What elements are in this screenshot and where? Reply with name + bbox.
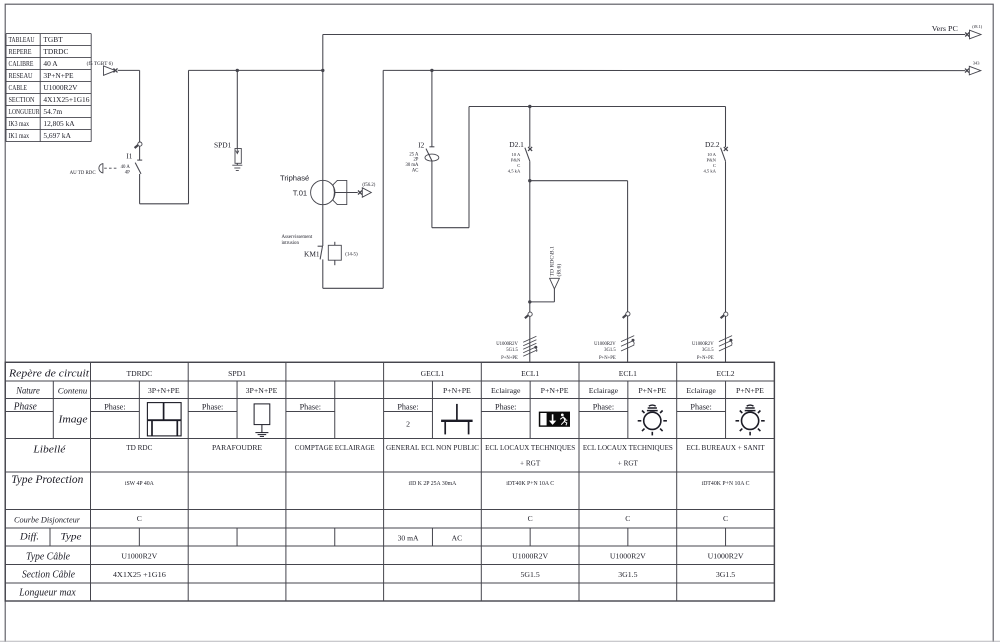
svg-text:IK1 max: IK1 max	[9, 132, 30, 140]
svg-text:P&N: P&N	[511, 157, 521, 162]
svg-text:AU TD RDC: AU TD RDC	[70, 171, 96, 176]
svg-text:iDT40K P+N 10A C: iDT40K P+N 10A C	[702, 481, 750, 487]
svg-text:(f8.6): (f8.6)	[555, 264, 562, 277]
node: meter output reference (f56.2)	[358, 191, 362, 195]
svg-text:3P+N+PE: 3P+N+PE	[43, 71, 74, 80]
svg-text:40 A: 40 A	[121, 165, 131, 170]
svg-text:intrusion: intrusion	[282, 241, 300, 246]
svg-text:P&N: P&N	[707, 157, 717, 162]
svg-text:Eclairage: Eclairage	[491, 386, 521, 395]
svg-text:Vers PC: Vers PC	[932, 24, 958, 33]
svg-text:iID K 2P 25A 30mA: iID K 2P 25A 30mA	[409, 481, 458, 487]
svg-text:Type Câble: Type Câble	[26, 551, 71, 562]
svg-text:P+N+PE: P+N+PE	[443, 386, 471, 395]
svg-text:ECL BUREAUX + SANIT: ECL BUREAUX + SANIT	[687, 444, 766, 452]
svg-text:SPD1: SPD1	[228, 369, 246, 378]
wire: ECL2 to table	[725, 316, 727, 362]
wire: SPD1 drop	[236, 70, 238, 148]
svg-text:U1000R2V: U1000R2V	[496, 342, 518, 347]
svg-text:54.7m: 54.7m	[43, 107, 62, 116]
svg-text:D2.2: D2.2	[705, 140, 720, 149]
svg-text:U1000R2V: U1000R2V	[692, 342, 714, 347]
wire: bus C down to I2	[431, 70, 433, 146]
breaker D2.1 blade	[525, 148, 530, 162]
svg-text:KM1: KM1	[304, 250, 320, 259]
svg-text:12,805 kA: 12,805 kA	[43, 119, 75, 128]
svg-text:TD RDC\B.1: TD RDC\B.1	[549, 246, 555, 276]
remote actuator AU TD RDC	[99, 164, 103, 173]
switch I1 head (circle + flag)	[138, 142, 142, 146]
table: circuit summary grid	[5, 362, 774, 601]
svg-text:I1: I1	[126, 152, 132, 160]
svg-text:P+N+PE: P+N+PE	[541, 386, 569, 395]
cable ECL2 (3G1.5 hatch)	[719, 336, 732, 342]
svg-text:AC: AC	[452, 533, 463, 542]
svg-text:Courbe Disjoncteur: Courbe Disjoncteur	[14, 514, 81, 524]
table image: exit sign luminaire	[539, 412, 570, 427]
svg-text:Nature: Nature	[15, 386, 40, 397]
svg-text:RESEAU: RESEAU	[9, 72, 34, 80]
svg-text:+ RGT: + RGT	[618, 460, 639, 468]
wire: bus segment C	[383, 69, 965, 71]
svg-text:GECL1: GECL1	[421, 369, 445, 378]
svg-text:Libellé: Libellé	[32, 444, 66, 456]
table image: lamp symbol ECL2	[736, 405, 765, 435]
svg-text:Longueur max: Longueur max	[18, 587, 76, 598]
svg-text:Phase:: Phase:	[202, 402, 223, 411]
svg-text:2: 2	[406, 420, 410, 429]
wire: bus end down to D2.2	[725, 107, 727, 148]
svg-text:P+N+PE: P+N+PE	[697, 356, 714, 361]
svg-text:2P: 2P	[413, 158, 418, 163]
svg-text:CALIBRE: CALIBRE	[9, 60, 34, 68]
svg-text:iSW 4P 40A: iSW 4P 40A	[125, 481, 155, 487]
svg-text:AC: AC	[412, 169, 419, 174]
switch I2 blade	[426, 149, 432, 162]
svg-text:+ RGT: + RGT	[520, 460, 541, 468]
wire: KM1 to bottom loop	[322, 259, 324, 288]
svg-text:T.01: T.01	[293, 189, 307, 198]
svg-text:P+N+PE: P+N+PE	[736, 386, 764, 395]
svg-text:Type Protection: Type Protection	[11, 474, 83, 486]
svg-text:iDT40K P+N 10A C: iDT40K P+N 10A C	[506, 481, 554, 487]
wire: top link toward Vers PC	[323, 34, 965, 36]
svg-text:Eclairage: Eclairage	[589, 386, 619, 395]
wire: I2 loop to GECL bus	[431, 161, 433, 227]
svg-text:I2: I2	[418, 142, 424, 150]
svg-text:Phase:: Phase:	[690, 402, 711, 411]
svg-text:5,697 kA: 5,697 kA	[43, 131, 71, 140]
svg-text:5G1.5: 5G1.5	[506, 348, 518, 353]
svg-text:REPERE: REPERE	[9, 48, 33, 56]
svg-text:TABLEAU: TABLEAU	[9, 36, 36, 44]
junction node TD RDC B.1 tap	[528, 300, 531, 303]
svg-text:ECL2: ECL2	[716, 369, 734, 378]
svg-text:C: C	[517, 163, 520, 168]
svg-text:Phase:: Phase:	[495, 402, 516, 411]
svg-text:C: C	[625, 514, 630, 523]
svg-text:Image: Image	[57, 415, 88, 426]
wire: ECL1 to table	[529, 316, 531, 362]
svg-text:4P: 4P	[125, 170, 130, 175]
junction node ECL1-2 tap	[528, 179, 531, 182]
svg-text:P+N+PE: P+N+PE	[599, 356, 616, 361]
switch head ECL1 (circle + flag)	[528, 312, 532, 316]
svg-text:ECL LOCAUX TECHNIQUES: ECL LOCAUX TECHNIQUES	[583, 444, 673, 452]
svg-text:Phase:: Phase:	[104, 402, 125, 411]
wire: GECL distribution bus	[469, 106, 726, 108]
breaker D2.2 blade	[721, 148, 726, 162]
svg-text:U1000R2V: U1000R2V	[708, 551, 744, 560]
junction node SPD1 tap	[236, 69, 239, 72]
junction node I2 tap	[430, 69, 433, 72]
svg-text:343: 343	[973, 61, 981, 66]
wire: bus B down to meter T.01	[322, 70, 324, 246]
wire: I1 upper stub	[139, 146, 141, 160]
surge protector SPD1 body	[235, 149, 241, 164]
svg-text:D2.1: D2.1	[509, 140, 524, 149]
table image: GECL distribution symbol	[441, 404, 473, 435]
wire: SPD1 to ground	[236, 163, 238, 165]
table image: TD RDC board symbol	[147, 403, 181, 436]
switch head ECL2 (circle + flag)	[724, 312, 728, 316]
svg-text:ECL1: ECL1	[521, 369, 539, 378]
svg-text:P+N+PE: P+N+PE	[638, 386, 666, 395]
svg-text:C: C	[528, 514, 533, 523]
switch head ECL1-2 (circle + flag)	[626, 312, 630, 316]
svg-text:Repère de circuit: Repère de circuit	[8, 367, 90, 379]
wire: TGBT arrival to I1 drop	[118, 69, 140, 71]
contactor KM1 coil box	[328, 245, 341, 260]
svg-text:PARAFOUDRE: PARAFOUDRE	[212, 444, 263, 452]
wire: I1 bottom loop to bus B	[139, 174, 141, 204]
wire: D2.1 output	[529, 161, 531, 181]
svg-text:GENERAL ECL NON PUBLIC: GENERAL ECL NON PUBLIC	[386, 444, 479, 452]
svg-text:SPD1: SPD1	[214, 140, 232, 149]
svg-text:4X1X25+1G16: 4X1X25+1G16	[43, 95, 89, 104]
table image: lamp symbol ECL1-2	[638, 405, 667, 435]
svg-text:TGBT: TGBT	[43, 35, 63, 44]
svg-text:(f5 TGBT 6): (f5 TGBT 6)	[87, 60, 114, 67]
svg-text:3P+N+PE: 3P+N+PE	[148, 386, 180, 395]
svg-text:(f56.2): (f56.2)	[362, 183, 375, 188]
wire: branch to second ECL1	[530, 180, 628, 182]
svg-text:Phase: Phase	[13, 402, 37, 413]
svg-text:4X1X25 +1G16: 4X1X25 +1G16	[113, 570, 166, 579]
wire: ECL1 feeder down	[529, 302, 531, 312]
svg-text:U1000R2V: U1000R2V	[512, 551, 548, 560]
breaker D2.2 contact cross	[724, 147, 728, 151]
svg-text:SECTION: SECTION	[9, 96, 36, 104]
RCD torus I2	[425, 154, 439, 161]
svg-text:3G1.5: 3G1.5	[702, 348, 714, 353]
svg-text:TDRDC: TDRDC	[126, 369, 152, 378]
junction node D2.1 tap	[528, 105, 531, 108]
meter T.01 (Triphasé) circle	[311, 180, 335, 204]
node: reference arrow TD RDC B.1 (f8.6)	[550, 278, 560, 289]
svg-text:Phase:: Phase:	[593, 402, 614, 411]
svg-text:3G1.5: 3G1.5	[604, 348, 616, 353]
svg-text:ECL LOCAUX TECHNIQUES: ECL LOCAUX TECHNIQUES	[485, 444, 575, 452]
svg-text:30 mA: 30 mA	[398, 533, 419, 542]
svg-text:CABLE: CABLE	[9, 84, 28, 92]
svg-text:Section Câble: Section Câble	[22, 569, 76, 580]
cable ECL1 (5G1.5 hatch)	[523, 336, 536, 342]
svg-text:(14-5): (14-5)	[345, 253, 358, 258]
wire: bus to D2.1	[529, 107, 531, 148]
wire: D2.1 down	[529, 181, 531, 302]
switch I2 fixed contact tick	[429, 146, 434, 148]
svg-text:C: C	[723, 514, 728, 523]
svg-text:25 A: 25 A	[409, 152, 419, 157]
info table: feeder characteristics	[6, 34, 91, 142]
breaker D2.1 contact cross	[528, 147, 532, 151]
junction node T.01 tap	[321, 69, 324, 72]
wire: riser to top link	[322, 35, 324, 71]
svg-text:Asservissement: Asservissement	[282, 235, 313, 240]
cable ECL1-2 (3G1.5 hatch)	[621, 336, 634, 342]
svg-text:C: C	[713, 163, 716, 168]
switch I1 blade	[135, 163, 141, 174]
table image: SPD symbol with ground	[254, 404, 270, 437]
switch I1 fixed contact tick	[137, 159, 142, 161]
svg-text:U1000R2V: U1000R2V	[594, 342, 616, 347]
contactor KM1 contact	[318, 245, 323, 247]
svg-text:U1000R2V: U1000R2V	[610, 551, 646, 560]
wire: ECL1-2 to table	[627, 316, 629, 362]
svg-text:3G1.5: 3G1.5	[618, 570, 637, 579]
svg-text:Eclairage: Eclairage	[686, 386, 716, 395]
wire: D2.2 output down	[725, 161, 727, 312]
svg-text:30 mA: 30 mA	[406, 163, 420, 168]
svg-text:LONGUEUR: LONGUEUR	[9, 108, 40, 116]
svg-text:U1000R2V: U1000R2V	[43, 83, 78, 92]
svg-text:5G1.5: 5G1.5	[521, 570, 540, 579]
wire: link to TD RDC B.1	[530, 301, 555, 303]
svg-text:IK3 max: IK3 max	[9, 120, 30, 128]
svg-text:P+N+PE: P+N+PE	[501, 356, 518, 361]
ground symbol SPD1	[232, 164, 242, 166]
svg-text:Contenu: Contenu	[58, 387, 88, 396]
svg-text:Type: Type	[61, 531, 82, 541]
svg-text:40 A: 40 A	[43, 59, 58, 68]
svg-text:Phase:: Phase:	[397, 402, 418, 411]
svg-text:Diff.: Diff.	[19, 531, 39, 541]
wire: bus segment B	[189, 69, 323, 71]
meter T.01 output wing	[333, 180, 347, 204]
svg-text:U1000R2V: U1000R2V	[121, 551, 157, 560]
svg-text:TD RDC: TD RDC	[126, 444, 152, 452]
svg-text:3P+N+PE: 3P+N+PE	[246, 386, 278, 395]
svg-text:COMPTAGE ECLAIRAGE: COMPTAGE ECLAIRAGE	[295, 444, 376, 452]
svg-text:3G1.5: 3G1.5	[716, 570, 735, 579]
wire: meter pulse output	[335, 192, 358, 194]
svg-text:ECL1: ECL1	[619, 369, 637, 378]
svg-text:(f8.1): (f8.1)	[972, 24, 982, 29]
svg-text:TDRDC: TDRDC	[43, 47, 68, 56]
svg-text:Phase:: Phase:	[300, 402, 321, 411]
svg-text:Triphasé: Triphasé	[280, 173, 309, 182]
svg-text:C: C	[137, 514, 142, 523]
